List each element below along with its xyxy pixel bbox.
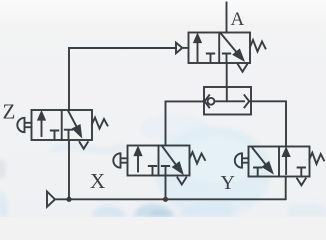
shuttle valve right seat chevron: [244, 95, 249, 107]
wire shuttle right port to valve Y top: [251, 101, 286, 146]
watermark wave band left: [50, 143, 124, 155]
valve X pushbutton: [113, 153, 127, 167]
valve Y exhaust path diagonal arrow (left box): [253, 148, 267, 165]
shuttle valve (OR element): [204, 87, 251, 115]
valve Y pushbutton: [235, 153, 249, 167]
valve A flow arrow up (left box): [197, 41, 199, 62]
shuttle valve left seat chevron: [205, 95, 210, 107]
supply source triangle: [47, 192, 55, 207]
valve A blocked port T (left box): [207, 54, 214, 63]
valve A pilot triangle: [176, 43, 182, 54]
valve Z (3/2 pushbutton valve): [17, 110, 107, 149]
svg-text:A: A: [231, 9, 245, 30]
valve X flow arrow up (left box): [137, 153, 139, 172]
valve Y (3/2 pushbutton valve): [235, 147, 324, 186]
valve Z pushbutton: [17, 118, 31, 132]
watermark large blob center-right: [0, 114, 326, 218]
valve X (3/2 pushbutton valve): [113, 146, 205, 185]
valve X return spring: [190, 152, 206, 164]
wire A output line: [226, 3, 228, 33]
wire shuttle left port to valve X top: [166, 101, 205, 145]
wire valve X bottom to supply bus: [165, 176, 167, 200]
shuttle valve ball: [208, 98, 215, 105]
svg-text:Z: Z: [3, 100, 16, 124]
valve Z flow arrow up (left box): [41, 118, 43, 137]
wire valve Z bottom to supply bus: [68, 140, 70, 199]
valve Y blocked port T (left box): [254, 168, 261, 177]
valve A exhaust triangle: [238, 65, 247, 72]
valve X exhaust triangle: [177, 178, 186, 185]
wire valve A bottom port to shuttle valve top: [226, 63, 228, 87]
svg-text:Y: Y: [221, 172, 235, 194]
shuttle valve inner passage: [215, 100, 245, 102]
watermark waves bottom: [92, 206, 126, 217]
wire pilot line from valve Z output to valve A pilot: [69, 48, 176, 110]
valve A return spring: [250, 40, 266, 52]
watermark faint swirl above X: [141, 114, 209, 142]
valve X exhaust path diagonal arrow (right box): [162, 146, 177, 166]
valve X blocked port T (left box): [149, 166, 156, 176]
valve Y flow arrow up (right box): [285, 154, 287, 174]
valve Z blocked port T (right box): [65, 130, 72, 140]
valve Y blocked port T (right box): [298, 168, 305, 177]
valve A (3/2 pilot valve): [176, 33, 266, 72]
valve X blocked port T (right box): [162, 166, 169, 176]
valve Z blocked port T (left box): [51, 131, 58, 141]
watermark bottom right corner: [288, 203, 326, 217]
valve A blocked port T (right box): [223, 54, 230, 63]
valve Y return spring: [310, 153, 325, 164]
valve A exhaust path diagonal arrow (right box): [221, 33, 239, 54]
svg-text:X: X: [90, 169, 105, 193]
valve Z return spring: [92, 118, 108, 129]
wire supply bus line: [55, 177, 286, 200]
valve Y exhaust triangle: [297, 179, 306, 186]
watermark left edge: [0, 188, 7, 217]
junction dot at valve Z supply: [66, 197, 71, 202]
shuttle valve top port stub: [226, 87, 228, 101]
valve Z exhaust path diagonal arrow (right box): [68, 111, 77, 128]
valve Z exhaust triangle: [80, 142, 88, 149]
junction dot at valve X supply: [163, 197, 168, 202]
